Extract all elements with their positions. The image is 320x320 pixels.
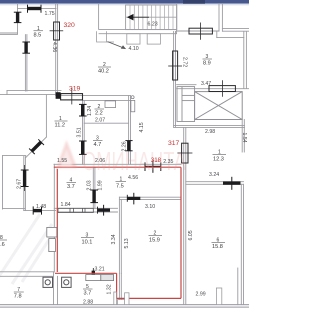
wall courtyard vertical x46 xyxy=(45,95,47,137)
svg-text:11.2: 11.2 xyxy=(55,123,65,129)
banner dark remnant xyxy=(183,0,205,4)
wall corridor vertical x129 xyxy=(128,96,130,165)
wall grey beside red B xyxy=(53,164,55,272)
svg-text:2.03: 2.03 xyxy=(86,180,92,190)
wall top-right horizontal double xyxy=(222,27,249,29)
svg-text:4.15: 4.15 xyxy=(139,122,145,132)
svg-text:6.05: 6.05 xyxy=(188,230,194,240)
svg-text:2.35: 2.35 xyxy=(163,159,173,165)
wall room15.9 top double xyxy=(119,196,181,198)
svg-text:3.7: 3.7 xyxy=(67,184,75,190)
wall grey beside red A xyxy=(54,163,181,165)
svg-text:15.8: 15.8 xyxy=(212,244,223,250)
svg-text:1.54: 1.54 xyxy=(241,133,247,143)
wall left lower vertical x24.5 xyxy=(23,157,25,211)
wall room15.9 left vertical double xyxy=(118,197,120,273)
svg-text:5.13: 5.13 xyxy=(124,238,130,248)
wall right inner line xyxy=(237,268,239,305)
svg-text:3.21: 3.21 xyxy=(95,266,105,272)
window rect 320 xyxy=(50,22,64,40)
svg-text:2.07: 2.07 xyxy=(95,118,105,124)
window box with mullions on room4 bottom wall xyxy=(58,208,93,212)
window rect 319 xyxy=(61,88,83,104)
wall balcony left room xyxy=(3,155,26,157)
svg-text:7.8: 7.8 xyxy=(14,293,22,299)
svg-text:6.23: 6.23 xyxy=(148,22,158,28)
bar wall x82.5 upper xyxy=(81,104,84,116)
window rect 317 xyxy=(177,143,192,163)
svg-text:319: 319 xyxy=(69,86,81,93)
fixtures on corridor wall x129 xyxy=(131,96,135,112)
wall hall divider x94 xyxy=(92,167,94,208)
svg-text:1.55: 1.55 xyxy=(57,158,67,164)
svg-text:2.99: 2.99 xyxy=(196,291,206,297)
watermark grey diagonals bottom-left xyxy=(0,214,52,284)
svg-text:3.10: 3.10 xyxy=(145,204,155,210)
watermark pink ДОМИНАНТА xyxy=(57,140,187,176)
svg-text:4.36: 4.36 xyxy=(51,42,57,52)
bar top wall y8.6 xyxy=(28,7,42,10)
U column xyxy=(97,31,107,42)
svg-text:7.6: 7.6 xyxy=(0,242,5,248)
wall right edge lower double xyxy=(240,184,242,304)
dimension texts horizontal xyxy=(36,11,219,305)
bar left wall x17.5 xyxy=(16,12,19,22)
elevator shaft cells xyxy=(177,87,195,122)
top blue banner strip xyxy=(0,0,249,3)
bar room15.9 top wall xyxy=(127,197,140,200)
wall bottom outer double xyxy=(0,305,249,308)
wall top-right vertical double xyxy=(218,4,220,32)
svg-text:2.98: 2.98 xyxy=(205,129,215,135)
black window bars xyxy=(14,5,241,281)
bar wall x82.5 lower xyxy=(81,141,84,154)
wall bottom-left double y272 xyxy=(0,271,54,273)
fixture sink on wall y100 xyxy=(105,101,116,108)
wall room4 bottom double xyxy=(54,207,117,209)
svg-text:7.5: 7.5 xyxy=(116,183,124,189)
wall corridor left horizontal xyxy=(7,89,61,91)
wall corridor top line y31 xyxy=(177,30,219,32)
wall left mid vertical xyxy=(24,35,26,91)
wall centre vertical x82 xyxy=(82,96,84,165)
wall room2.2/4.7 divider xyxy=(84,122,128,124)
wall right edge upper double xyxy=(243,32,245,89)
svg-text:2.2: 2.2 xyxy=(95,110,103,116)
staircase enclosure xyxy=(99,4,177,34)
bar left wall x26 xyxy=(24,42,27,53)
wall apt317 right vertical double xyxy=(183,127,185,304)
wall 1.48 horizontal xyxy=(24,210,56,212)
door symbol on red wall A xyxy=(145,166,161,168)
bar wall room4 bottom xyxy=(98,209,111,212)
bar hall wall x94 xyxy=(92,190,95,203)
stair direction triangle xyxy=(127,14,134,21)
svg-text:3.34: 3.34 xyxy=(111,234,117,244)
bar left wall x24.5 (2.67) xyxy=(23,170,26,187)
svg-text:1.84: 1.84 xyxy=(61,202,71,208)
dimension texts rotated xyxy=(17,42,248,295)
wall top-left horizontal step xyxy=(0,32,18,34)
wall elevator right vertical xyxy=(241,120,243,153)
corridor colonnade boxes xyxy=(97,31,161,44)
entry arrow diagonal xyxy=(108,42,126,49)
svg-text:3.7: 3.7 xyxy=(84,291,92,297)
junction black square xyxy=(56,92,61,99)
window rect top-right xyxy=(189,23,212,40)
svg-text:2.06: 2.06 xyxy=(95,158,105,164)
svg-text:320: 320 xyxy=(64,22,76,29)
wall left top vertical xyxy=(17,4,19,34)
svg-text:3.51: 3.51 xyxy=(77,127,83,137)
room labels (number / area) xyxy=(0,26,226,300)
svg-text:2.88: 2.88 xyxy=(83,299,93,305)
svg-text:318: 318 xyxy=(151,157,162,164)
wall stair right vertical xyxy=(176,4,178,34)
pillar bottom centre xyxy=(114,292,117,305)
stair bottom double wall xyxy=(99,29,177,31)
stair treads xyxy=(130,5,173,30)
wall lobby bottom double xyxy=(174,125,245,127)
svg-text:4.7: 4.7 xyxy=(94,142,102,148)
svg-text:40.2: 40.2 xyxy=(98,69,109,75)
wall room15.9 left below kitchen xyxy=(118,273,120,304)
svg-text:2.26: 2.26 xyxy=(121,141,127,151)
wall stair left vertical xyxy=(98,4,100,30)
bar room15.8 top wall xyxy=(223,181,241,184)
svg-text:1.24: 1.24 xyxy=(87,106,93,116)
window rect room8.9 xyxy=(209,80,235,97)
elevator with X xyxy=(195,92,243,120)
svg-text:1.99: 1.99 xyxy=(97,180,103,190)
wall diagonal xyxy=(26,137,47,158)
svg-text:3.47: 3.47 xyxy=(201,81,211,87)
svg-text:2.72: 2.72 xyxy=(182,57,188,67)
bar diagonal wall xyxy=(29,139,44,154)
wall lobby left vertical x174.5 xyxy=(173,32,175,128)
watermark triangle Д xyxy=(57,140,78,168)
wall block top double xyxy=(58,95,131,97)
wall room8.9 bottom y88.7 xyxy=(177,84,196,86)
wall room1 top xyxy=(18,8,57,10)
svg-text:10.1: 10.1 xyxy=(82,239,93,245)
bar corridor wall x129 xyxy=(127,141,130,151)
svg-text:1.32: 1.32 xyxy=(107,284,113,294)
kitchen fixtures below red wall C xyxy=(86,275,114,281)
window rect 2.72 xyxy=(168,51,182,80)
svg-text:4.10: 4.10 xyxy=(129,46,139,52)
svg-text:15.9: 15.9 xyxy=(149,237,160,243)
svg-text:1.48: 1.48 xyxy=(36,204,46,210)
stair tail line xyxy=(134,16,150,18)
svg-text:12.3: 12.3 xyxy=(213,156,224,162)
wall vent divider vertical xyxy=(53,272,55,305)
svg-text:317: 317 xyxy=(168,140,180,147)
bar wall 1.48 xyxy=(33,209,41,212)
pillar blocks on bottom wall xyxy=(125,288,222,305)
vent shaft squares xyxy=(43,277,71,287)
stair mid line xyxy=(126,16,177,18)
svg-text:1.75: 1.75 xyxy=(45,11,55,17)
svg-text:8.9: 8.9 xyxy=(203,61,211,67)
svg-text:3.24: 3.24 xyxy=(209,172,219,178)
svg-text:4.56: 4.56 xyxy=(128,175,138,181)
wall top-right step xyxy=(216,31,218,37)
bar kitchen red wall xyxy=(92,271,95,279)
door jambs on red wall B xyxy=(47,227,57,251)
apartment red outline 318 xyxy=(54,167,181,298)
wall 4.36 vertical double xyxy=(55,4,57,96)
svg-text:2.67: 2.67 xyxy=(17,179,23,189)
wall room15.8 top y183 xyxy=(186,181,244,183)
svg-text:8.5: 8.5 xyxy=(34,32,42,38)
